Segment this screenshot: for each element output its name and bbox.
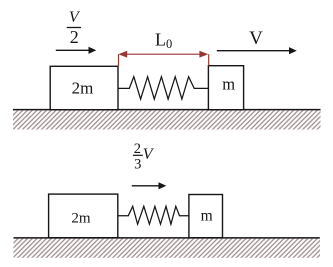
spring (top) xyxy=(118,77,208,99)
top ground line xyxy=(13,109,321,111)
arrowhead of 2/3 V arrow xyxy=(159,182,167,189)
svg-text:m: m xyxy=(201,208,213,225)
svg-text:m: m xyxy=(222,75,235,94)
dimension arrowhead right xyxy=(199,51,208,58)
svg-text:2: 2 xyxy=(70,27,79,47)
velocity arrow V xyxy=(217,50,290,52)
svg-text:V: V xyxy=(143,146,155,163)
top ground hatching xyxy=(13,110,321,129)
svg-text:2m: 2m xyxy=(71,210,91,226)
svg-text:3: 3 xyxy=(134,156,141,172)
spring (bottom) xyxy=(118,206,189,224)
dimension line L0 (red double arrow) xyxy=(124,53,203,55)
fraction bar of 2/3 xyxy=(133,154,143,156)
svg-text:L0: L0 xyxy=(155,30,172,52)
dimension arrowhead left xyxy=(118,51,127,58)
block m (bottom) xyxy=(189,195,223,238)
arrowhead of V arrow xyxy=(289,47,297,54)
svg-text:2m: 2m xyxy=(72,78,94,97)
dimension tick left xyxy=(118,54,120,66)
svg-text:V: V xyxy=(249,28,263,49)
bottom ground hatching xyxy=(14,239,321,258)
block 2m (bottom) xyxy=(49,194,118,238)
svg-text:V: V xyxy=(69,9,81,26)
block m (top) xyxy=(208,66,243,110)
velocity arrow V/2 xyxy=(56,49,89,51)
block 2m (top) xyxy=(50,66,118,109)
bottom ground line xyxy=(14,237,320,239)
fraction bar of V/2 xyxy=(67,27,81,29)
velocity arrow 2/3 V xyxy=(132,185,159,187)
dimension tick right xyxy=(208,54,210,66)
svg-text:2: 2 xyxy=(134,141,141,157)
arrowhead of V/2 arrow xyxy=(89,47,97,54)
